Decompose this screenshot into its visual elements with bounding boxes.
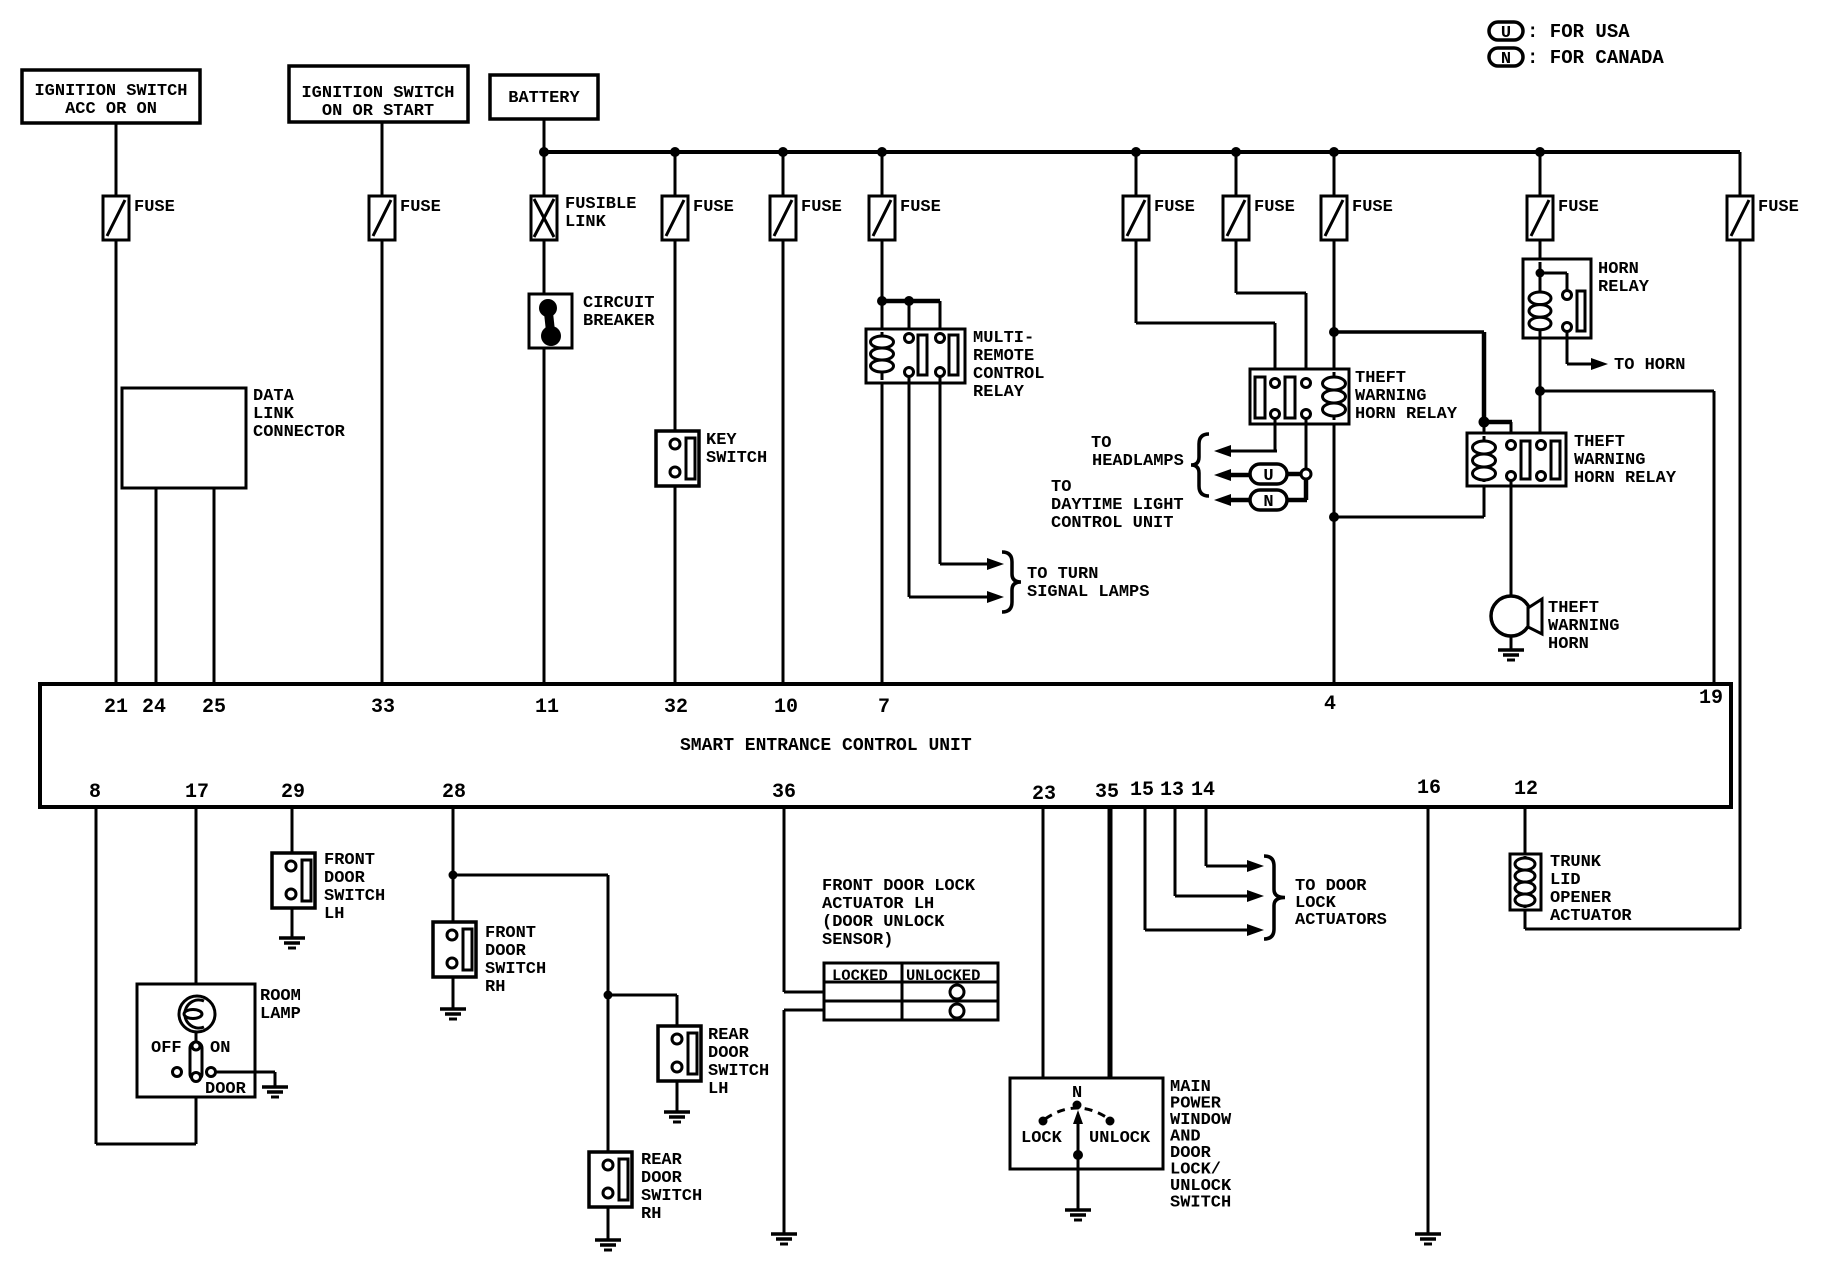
svg-text:21: 21 <box>104 696 128 719</box>
wire relay 2 coil out <box>1483 484 1486 517</box>
wire switch to ground <box>1077 1155 1080 1210</box>
svg-text:ACTUATOR: ACTUATOR <box>1550 907 1632 926</box>
svg-text:FUSE: FUSE <box>134 198 175 217</box>
svg-text:LID: LID <box>1550 871 1581 890</box>
wire relay1 to U/N node <box>1305 418 1308 470</box>
relay 1 coil wire <box>1333 372 1336 420</box>
UNLOCK contact <box>1106 1117 1115 1126</box>
svg-text:15: 15 <box>1130 779 1154 802</box>
fuse F3 <box>662 196 688 240</box>
theft warning horn <box>1491 596 1531 636</box>
fuse F2 <box>369 196 395 240</box>
wire battery to fusible link <box>543 119 546 196</box>
junction to pin 19 <box>1535 386 1545 396</box>
svg-text:35: 35 <box>1095 781 1119 804</box>
svg-text:ACTUATOR LH: ACTUATOR LH <box>822 895 934 914</box>
fuse F4 <box>770 196 796 240</box>
wire to relay contact 2 <box>939 301 942 336</box>
data link connector box <box>122 388 246 488</box>
theft warning horn relay 2 box <box>1467 433 1566 486</box>
svg-text:FRONT: FRONT <box>485 924 536 943</box>
svg-text:DATA: DATA <box>253 387 295 406</box>
ground horn <box>1498 648 1524 652</box>
wire fuse to pin 10 <box>782 240 785 684</box>
svg-text:SWITCH: SWITCH <box>706 449 767 468</box>
wire pin 8 down <box>95 807 98 1144</box>
wire to theft relay contact <box>1274 323 1277 380</box>
svg-text:OPENER: OPENER <box>1550 889 1612 908</box>
svg-text:SWITCH: SWITCH <box>708 1062 769 1081</box>
svg-text:CONTROL: CONTROL <box>973 365 1044 384</box>
svg-text:LINK: LINK <box>565 213 607 232</box>
wire room lamp to ground <box>215 1071 275 1074</box>
key switch <box>656 431 699 486</box>
battery box <box>490 75 598 119</box>
svg-text:FUSE: FUSE <box>1558 198 1599 217</box>
arrow to daytime light N <box>1214 494 1231 506</box>
svg-text:SMART ENTRANCE CONTROL UNIT: SMART ENTRANCE CONTROL UNIT <box>680 736 972 756</box>
svg-text:RH: RH <box>485 978 505 997</box>
svg-text:U: U <box>1263 467 1273 486</box>
fuse F1 <box>103 196 129 240</box>
svg-text:BREAKER: BREAKER <box>583 312 655 331</box>
wire U pill to node <box>1287 472 1302 477</box>
wire relay coil to pin 7 <box>881 383 884 684</box>
multi-remote control relay box <box>866 329 965 383</box>
front door switch RH <box>433 922 476 977</box>
junction bus <box>1231 147 1241 157</box>
arrow to turn signal lamps <box>987 558 1004 570</box>
ground front door switch RH <box>440 1007 466 1011</box>
svg-text:HORN RELAY: HORN RELAY <box>1574 469 1677 488</box>
svg-text:10: 10 <box>774 696 798 719</box>
ground pin 16 <box>1415 1232 1441 1236</box>
wire switch to ground <box>291 908 294 938</box>
wire pin 14 down <box>1205 807 1208 866</box>
svg-text:UNLOCK: UNLOCK <box>1089 1129 1151 1148</box>
wire pin 17 to room lamp <box>195 807 198 998</box>
wire fuse to pin 21 <box>115 240 118 684</box>
fuse F6 <box>1123 196 1149 240</box>
rear door switch LH <box>658 1026 701 1081</box>
fuse F5 <box>869 196 895 240</box>
locked/unlocked table <box>824 963 998 1020</box>
svg-text:WARNING: WARNING <box>1574 451 1645 470</box>
svg-text:12: 12 <box>1514 778 1538 801</box>
wire to relay 2 contact <box>1510 422 1513 441</box>
svg-text:FRONT: FRONT <box>324 851 375 870</box>
svg-text:KEY: KEY <box>706 431 737 450</box>
wire jog right <box>1236 292 1306 295</box>
wire to actuator row 2 <box>784 991 824 994</box>
wire bus corner to fuse <box>1739 152 1742 196</box>
wire ign2 to fuse <box>381 122 384 196</box>
wire pin 12 down <box>1524 807 1527 858</box>
svg-text:TO: TO <box>1051 478 1071 497</box>
svg-text:DOOR: DOOR <box>205 1080 247 1099</box>
svg-text:ROOM: ROOM <box>260 987 301 1006</box>
svg-text:N: N <box>1501 50 1511 69</box>
svg-text:UNLOCKED: UNLOCKED <box>906 967 980 985</box>
trunk lid opener actuator box <box>1510 854 1541 910</box>
svg-text:FUSE: FUSE <box>1352 198 1393 217</box>
wire N pill right <box>1287 498 1307 503</box>
ground room lamp <box>262 1085 288 1089</box>
wire down to pin 19 <box>1713 391 1716 684</box>
svg-text:FUSIBLE: FUSIBLE <box>565 195 636 214</box>
rear door switch RH <box>589 1152 632 1207</box>
arrow to horn <box>1591 358 1608 370</box>
junction rear LH <box>604 991 613 1000</box>
wire pin 36 down <box>783 807 786 992</box>
arrow to daytime light U <box>1214 469 1231 481</box>
wire node down to N <box>1304 479 1309 500</box>
svg-text:HEADLAMPS: HEADLAMPS <box>1092 452 1184 471</box>
junction theft relay 2 coil <box>1479 417 1490 428</box>
svg-text:HORN RELAY: HORN RELAY <box>1355 405 1458 424</box>
svg-text:LH: LH <box>708 1080 728 1099</box>
svg-text:N: N <box>1263 493 1273 512</box>
wire pin 15 down <box>1144 807 1147 930</box>
ground front door switch LH <box>279 936 305 940</box>
svg-text:ACTUATORS: ACTUATORS <box>1295 911 1387 930</box>
svg-text:25: 25 <box>202 696 226 719</box>
room lamp switch lever <box>190 1042 202 1080</box>
wire to pin 19 right <box>1540 390 1714 393</box>
svg-text:IGNITION SWITCH: IGNITION SWITCH <box>301 84 454 103</box>
wire switch to ground <box>676 1081 679 1112</box>
svg-text:(DOOR UNLOCK: (DOOR UNLOCK <box>822 913 945 932</box>
brace door lock actuators <box>1264 856 1285 939</box>
wire fuse to pin 33 <box>381 240 384 684</box>
arrow to turn signal lamps <box>987 591 1004 603</box>
junction horn relay <box>1536 269 1545 278</box>
wire relay 2 coil return <box>1334 516 1484 519</box>
svg-text:32: 32 <box>664 696 688 719</box>
junction relay feed <box>877 296 887 306</box>
arrow to door lock actuators <box>1247 924 1264 936</box>
ground actuator <box>771 1232 797 1236</box>
svg-text:FUSE: FUSE <box>900 198 941 217</box>
svg-text:24: 24 <box>142 696 166 719</box>
theft warning horn relay 1 box <box>1250 369 1349 424</box>
svg-text:4: 4 <box>1324 693 1336 716</box>
wire horn relay to theft relay 2 <box>1539 330 1542 441</box>
wire bus to fuse <box>881 152 884 196</box>
svg-text:13: 13 <box>1160 779 1184 802</box>
wire actuator row 3 out <box>784 1009 824 1012</box>
junction pin 28 <box>449 871 458 880</box>
svg-text:HORN: HORN <box>1598 260 1639 279</box>
svg-text:CONNECTOR: CONNECTOR <box>253 423 346 442</box>
wire relay1 to headlamps <box>1274 418 1277 451</box>
wire DLC to pin 24 <box>155 488 158 684</box>
svg-text:: FOR USA: : FOR USA <box>1527 21 1630 43</box>
svg-text:TRUNK: TRUNK <box>1550 853 1602 872</box>
wire down rear door switch RH <box>607 875 610 1152</box>
junction bus/key fuse <box>670 147 680 157</box>
relay 2 coil <box>1473 441 1496 480</box>
fuse F10 <box>1727 196 1753 240</box>
svg-text:N: N <box>1072 1084 1082 1103</box>
wire to relay contact 1 <box>908 301 911 336</box>
svg-text:REAR: REAR <box>708 1026 750 1045</box>
wire to trunk actuator bottom <box>1525 928 1740 931</box>
ground rear door switch LH <box>664 1110 690 1114</box>
svg-text:TO TURN: TO TURN <box>1027 565 1098 584</box>
wire fuse to horn relay <box>1539 240 1542 262</box>
wire down to ground <box>783 1010 786 1234</box>
svg-text:: FOR CANADA: : FOR CANADA <box>1527 47 1664 69</box>
wire DLC to pin 25 <box>213 488 216 684</box>
selector lever arrow <box>1077 1122 1080 1155</box>
svg-text:DAYTIME LIGHT: DAYTIME LIGHT <box>1051 496 1184 515</box>
svg-text:FUSE: FUSE <box>1758 198 1799 217</box>
svg-text:SWITCH: SWITCH <box>324 887 385 906</box>
svg-text:RELAY: RELAY <box>973 383 1025 402</box>
wire bus to fuse <box>1333 152 1336 196</box>
svg-text:DOOR: DOOR <box>485 942 527 961</box>
svg-text:LAMP: LAMP <box>260 1005 301 1024</box>
svg-text:19: 19 <box>1699 687 1723 710</box>
arrow to headlamps <box>1214 445 1231 457</box>
svg-text:LOCKED: LOCKED <box>832 967 888 985</box>
wire right outer down <box>1739 240 1742 929</box>
wire right to rear switches <box>453 874 608 877</box>
wire fuse down <box>1235 240 1238 293</box>
wire pin 13 down <box>1174 807 1177 896</box>
svg-text:DOOR: DOOR <box>641 1169 683 1188</box>
legend U pill <box>1489 22 1523 40</box>
svg-text:ACC OR ON: ACC OR ON <box>65 100 157 119</box>
wire breaker to pin 11 <box>543 348 546 684</box>
ground main switch <box>1065 1208 1091 1212</box>
svg-text:FUSE: FUSE <box>1254 198 1295 217</box>
svg-text:MULTI-: MULTI- <box>973 329 1034 348</box>
svg-text:OFF: OFF <box>151 1039 182 1058</box>
wire pin 16 to ground <box>1427 807 1430 1234</box>
pivot dot <box>1073 1101 1082 1110</box>
junction bus <box>1329 147 1339 157</box>
wire fuse down <box>1135 240 1138 323</box>
battery bus wire <box>544 150 1740 154</box>
horn ground wire <box>1510 636 1513 650</box>
front door switch LH <box>272 853 315 908</box>
room lamp bulb <box>179 996 215 1032</box>
wire pin 8 to room lamp <box>96 1143 196 1146</box>
U pill (USA) <box>1250 464 1287 484</box>
svg-text:REMOTE: REMOTE <box>973 347 1034 366</box>
horn relay coil <box>1529 292 1551 330</box>
ignition switch ACC box <box>22 70 200 123</box>
junction bus <box>778 147 788 157</box>
wire into relay 2 coil <box>1483 422 1486 445</box>
svg-text:FUSE: FUSE <box>693 198 734 217</box>
svg-text:33: 33 <box>371 696 395 719</box>
main power window switch box <box>1010 1078 1163 1169</box>
junction bus <box>1535 147 1545 157</box>
wire bus to fuse <box>1135 152 1138 196</box>
horn relay contact feed <box>1540 272 1567 275</box>
room lamp box <box>137 984 255 1097</box>
wire pin 28 down <box>452 807 455 922</box>
wire bus to fuse <box>1235 152 1238 196</box>
brace headlamps <box>1191 434 1209 496</box>
relay 1 coil <box>1323 377 1346 416</box>
svg-text:REAR: REAR <box>641 1151 683 1170</box>
svg-text:28: 28 <box>442 781 466 804</box>
wire relay to turn signal 2 <box>939 376 942 564</box>
svg-text:11: 11 <box>535 696 559 719</box>
wire down to rear door switch LH <box>676 995 679 1026</box>
wire ign1 to fuse <box>115 123 118 196</box>
svg-text:SWITCH: SWITCH <box>641 1187 702 1206</box>
junction relay 2 coil return <box>1329 512 1339 522</box>
svg-text:CIRCUIT: CIRCUIT <box>583 294 654 313</box>
trunk actuator coil <box>1515 858 1535 906</box>
junction bus <box>877 147 887 157</box>
wire relay contact feed <box>882 299 940 304</box>
arrow to door lock actuators <box>1247 890 1264 902</box>
wire bus to fuse <box>674 152 677 196</box>
svg-text:SWITCH: SWITCH <box>485 960 546 979</box>
wire up to room lamp switch <box>195 1082 198 1144</box>
svg-text:IGNITION SWITCH: IGNITION SWITCH <box>34 82 187 101</box>
junction <box>904 296 914 306</box>
wire fuse to key switch <box>674 240 677 431</box>
wire down <box>274 1072 277 1087</box>
relay coil wire <box>881 332 884 380</box>
fuse F8 <box>1321 196 1347 240</box>
junction theft relay 2 feed <box>1329 327 1339 337</box>
wire horn relay output <box>1566 331 1569 364</box>
fuse F9 <box>1527 196 1553 240</box>
smart entrance control unit box <box>40 684 1731 807</box>
svg-text:THEFT: THEFT <box>1355 369 1406 388</box>
svg-text:LH: LH <box>324 905 344 924</box>
svg-text:RELAY: RELAY <box>1598 278 1650 297</box>
horn relay coil feed <box>1539 262 1542 294</box>
wire fusible link to circuit breaker <box>543 240 546 294</box>
wire jog right <box>1136 322 1275 325</box>
legend N pill <box>1489 48 1523 66</box>
wire relay to turn signal 1 <box>908 376 911 597</box>
wire switch to ground <box>452 977 455 1009</box>
svg-text:8: 8 <box>89 781 101 804</box>
wire bus to fuse <box>1539 152 1542 196</box>
svg-text:ON: ON <box>210 1039 230 1058</box>
wire to contact <box>1566 273 1569 292</box>
brace turn signal <box>1002 552 1021 612</box>
svg-text:DOOR: DOOR <box>324 869 366 888</box>
svg-text:7: 7 <box>878 696 890 719</box>
svg-text:SIGNAL LAMPS: SIGNAL LAMPS <box>1027 583 1149 602</box>
arrow to door lock actuators <box>1247 860 1264 872</box>
svg-text:TO: TO <box>1091 434 1111 453</box>
ground rear door switch RH <box>595 1238 621 1242</box>
wire pin 35 to UNLOCK <box>1108 807 1113 1118</box>
horn relay box <box>1523 259 1591 338</box>
junction bus <box>1131 147 1141 157</box>
svg-text:HORN: HORN <box>1548 635 1589 654</box>
wire down to theft relay 2 <box>1482 332 1487 424</box>
svg-text:BATTERY: BATTERY <box>508 89 580 108</box>
svg-text:RH: RH <box>641 1205 661 1224</box>
relay coil <box>871 336 894 372</box>
svg-text:FUSE: FUSE <box>801 198 842 217</box>
trunk actuator coil wire <box>1524 856 1527 908</box>
circuit breaker box <box>529 294 572 348</box>
svg-text:29: 29 <box>281 781 305 804</box>
svg-text:FRONT DOOR LOCK: FRONT DOOR LOCK <box>822 877 976 896</box>
relay 2 coil wire <box>1483 436 1486 482</box>
svg-text:SWITCH: SWITCH <box>1170 1194 1231 1213</box>
wire switch to ground <box>607 1207 610 1240</box>
svg-text:FUSE: FUSE <box>1154 198 1195 217</box>
svg-text:WARNING: WARNING <box>1548 617 1619 636</box>
wire key switch to pin 32 <box>674 486 677 684</box>
LOCK contact <box>1039 1117 1048 1126</box>
wire bus to fuse <box>782 152 785 196</box>
lever base dot <box>1073 1150 1083 1160</box>
wire to theft relay contact <box>1305 293 1308 380</box>
svg-text:CONTROL UNIT: CONTROL UNIT <box>1051 514 1173 533</box>
svg-text:16: 16 <box>1417 777 1441 800</box>
ignition switch ON/START box <box>289 66 468 122</box>
svg-text:SENSOR): SENSOR) <box>822 931 893 950</box>
svg-text:FUSE: FUSE <box>400 198 441 217</box>
svg-text:36: 36 <box>772 781 796 804</box>
N pill (Canada) <box>1250 490 1287 510</box>
wire jog <box>1484 420 1512 425</box>
fusible link <box>531 196 557 240</box>
svg-text:17: 17 <box>185 781 209 804</box>
wire pin 23 to LOCK <box>1042 807 1045 1118</box>
junction battery/bus <box>539 147 549 157</box>
wire pin 29 down <box>291 807 294 853</box>
wire trunk actuator out <box>1524 908 1527 929</box>
fuse F7 <box>1223 196 1249 240</box>
bulb to switch wire <box>195 1032 198 1046</box>
svg-text:WARNING: WARNING <box>1355 387 1426 406</box>
svg-text:TO HORN: TO HORN <box>1614 356 1685 375</box>
svg-text:ON OR START: ON OR START <box>322 102 434 121</box>
svg-text:LINK: LINK <box>253 405 295 424</box>
wire to theft relay 2 <box>1334 330 1484 334</box>
svg-text:THEFT: THEFT <box>1574 433 1625 452</box>
wire relay 2 to theft warning horn <box>1510 480 1513 599</box>
svg-text:14: 14 <box>1191 779 1215 802</box>
svg-text:LOCK: LOCK <box>1021 1129 1063 1148</box>
dashed selector arc <box>1045 1108 1109 1119</box>
wire right to rear door switch LH <box>608 994 677 997</box>
wire fuse through theft relay coil to pin 4 <box>1333 240 1336 684</box>
svg-text:DOOR: DOOR <box>708 1044 750 1063</box>
svg-text:THEFT: THEFT <box>1548 599 1599 618</box>
svg-text:23: 23 <box>1032 783 1056 806</box>
wire fuse to relay <box>881 240 884 334</box>
svg-text:U: U <box>1501 24 1511 43</box>
